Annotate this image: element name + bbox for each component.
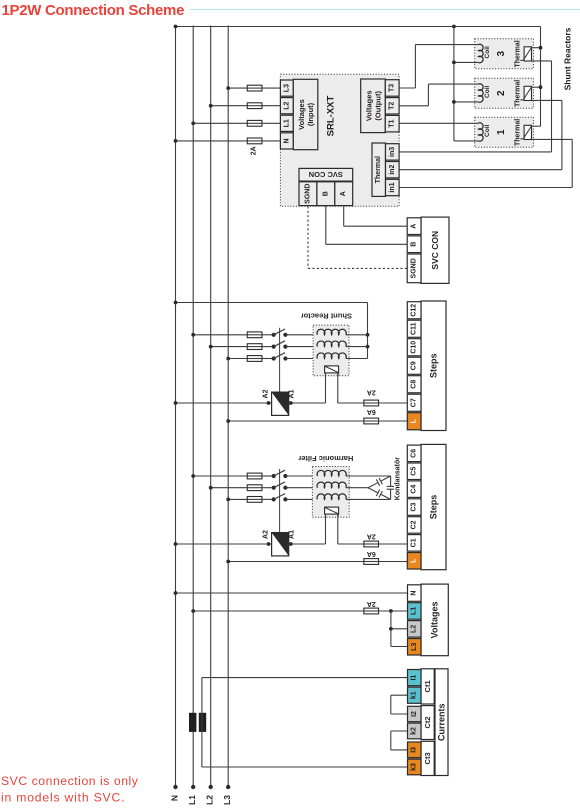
svg-text:T3: T3 bbox=[389, 84, 396, 92]
contactor contact (L1) bbox=[272, 333, 276, 337]
svg-text:C1: C1 bbox=[411, 538, 418, 547]
current transformer CT1 primary bar bbox=[189, 713, 196, 732]
label box: Steps (bank2) bbox=[421, 444, 446, 569]
svg-text:Voltages: Voltages bbox=[430, 601, 440, 638]
wire: thermistor 2 to in2 bbox=[532, 99, 562, 101]
wire: coil2 to capacitor apex (bank2) bbox=[346, 487, 368, 489]
terminal L2 (Voltages Input) bbox=[280, 98, 293, 114]
wire: coil3 to capacitor bottom (bank2) bbox=[346, 498, 391, 500]
label box: Voltages (Output) bbox=[361, 79, 386, 133]
wire: fuse to contact bbox=[262, 334, 274, 336]
svg-text:I2: I2 bbox=[411, 711, 418, 717]
wire: B to SVC CON bbox=[325, 206, 327, 244]
svg-text:C8: C8 bbox=[411, 380, 418, 389]
fuse F-L3 input bbox=[247, 85, 262, 91]
wire: 6A fuse to L terminal (bank1) bbox=[379, 420, 408, 422]
coil L1 (reactor 1) bbox=[479, 123, 484, 141]
svg-text:SGND: SGND bbox=[304, 184, 311, 204]
svg-text:C3: C3 bbox=[411, 502, 418, 511]
terminal A (SVC CON) bbox=[407, 218, 421, 235]
terminal L2 (Voltages) bbox=[408, 621, 422, 638]
svg-text:Voltages: Voltages bbox=[364, 90, 373, 121]
terminal I2 (Currents) bbox=[408, 706, 422, 721]
wire: fuse to terminal L2 bbox=[262, 105, 281, 107]
svg-text:C11: C11 bbox=[411, 322, 418, 335]
fuse F-N input bbox=[247, 138, 262, 144]
wire: L2 bus to step fuse bbox=[211, 346, 248, 348]
wire: contact to reactor coil (L1) bbox=[285, 334, 317, 336]
svg-text:A1: A1 bbox=[288, 530, 295, 539]
wire: thermistor 1 to common bbox=[532, 125, 541, 127]
wire: fuse to terminal N bbox=[262, 140, 281, 142]
svg-text:6A: 6A bbox=[367, 550, 376, 557]
svg-text:I1: I1 bbox=[411, 675, 418, 681]
filter coil 2 (bank2) bbox=[317, 482, 346, 488]
contactor contact (L1) bbox=[272, 474, 276, 478]
svg-text:A2: A2 bbox=[262, 389, 269, 398]
terminal in2 (Thermal input) bbox=[386, 162, 400, 178]
wire: 2A fuse to L1 terminal bbox=[379, 610, 408, 612]
wire: contact to reactor coil (L2) bbox=[285, 487, 317, 489]
wire: fuse to terminal L3 bbox=[262, 87, 281, 89]
terminal C8 (Steps bank1) bbox=[407, 376, 421, 393]
wire: fuse to contact bbox=[262, 358, 274, 360]
wire: contact to reactor coil (L3) bbox=[285, 358, 317, 360]
label box: Ct3 bbox=[421, 741, 434, 775]
wire: fuse to contact bbox=[262, 487, 274, 489]
wire: T2 to reactor 2 coil bbox=[399, 105, 428, 107]
terminal L3 (Voltages Input) bbox=[280, 80, 293, 96]
contactor contact (L3) bbox=[272, 497, 276, 501]
contactor K2 linkage bbox=[279, 469, 281, 533]
node: L3 bus end bbox=[226, 785, 230, 789]
svg-text:L3: L3 bbox=[222, 795, 232, 805]
svg-text:Coil: Coil bbox=[484, 124, 491, 136]
svg-text:2A: 2A bbox=[367, 389, 376, 396]
wire: A1 to thermal (K2) bbox=[289, 543, 326, 545]
terminal in1 (Thermal input) bbox=[386, 179, 400, 195]
terminal L1 (Voltages Input) bbox=[280, 115, 293, 131]
terminal C3 (Steps bank2) bbox=[407, 499, 421, 516]
svg-text:N: N bbox=[283, 138, 290, 143]
fuse 6A (bank2) bbox=[364, 559, 379, 565]
svg-text:Steps: Steps bbox=[429, 353, 439, 378]
wire: N bus bbox=[175, 26, 177, 788]
wire: CT to I1 bbox=[202, 677, 408, 679]
label box: Ct2 bbox=[421, 706, 434, 740]
svg-text:Currents: Currents bbox=[437, 703, 447, 741]
wire: N bus to input fuse bbox=[176, 140, 248, 142]
node: L2 bus end bbox=[209, 785, 213, 789]
wire: A to SVC CON bbox=[343, 206, 345, 226]
wire: fuse to contact bbox=[262, 498, 274, 500]
device: SVC CON converter box bbox=[421, 217, 449, 283]
fuse (step, L1) bbox=[247, 473, 262, 479]
wire: star point drop (bank1) bbox=[367, 303, 369, 359]
fuse 2A (bank1) bbox=[364, 400, 379, 406]
svg-text:in2: in2 bbox=[389, 165, 396, 175]
svg-text:k2: k2 bbox=[411, 727, 418, 735]
reactor coil 3 (bank1) bbox=[317, 353, 346, 359]
svg-text:A: A bbox=[340, 191, 347, 196]
fuse (step, L3) bbox=[247, 356, 262, 362]
terminal T3 (Voltages Output) bbox=[385, 80, 399, 97]
svg-text:N: N bbox=[411, 591, 418, 596]
svg-text:C6: C6 bbox=[411, 449, 418, 458]
terminal C11 (Steps bank1) bbox=[407, 320, 421, 337]
svg-text:in3: in3 bbox=[389, 147, 396, 157]
wire: N common drop to coils bbox=[453, 27, 455, 141]
wire: L1 bus to step fuse bbox=[193, 334, 247, 336]
wire: L1 bus to 2A fuse (voltages) bbox=[193, 610, 364, 612]
wire: T1 to reactor 1 coil bbox=[399, 122, 478, 124]
wire: coil 3 to star (bank1) bbox=[346, 358, 368, 360]
node: L1 bus end bbox=[191, 785, 195, 789]
svg-text:Steps: Steps bbox=[429, 495, 439, 520]
wire: L3 bus to step fuse bbox=[228, 498, 247, 500]
wire: fuse to terminal L1 bbox=[262, 122, 281, 124]
wire: N bus to reactors common (top) bbox=[176, 26, 541, 28]
wire: thermistor 3 to in3 bbox=[532, 60, 552, 62]
label box: Voltages bbox=[421, 584, 448, 656]
wire: thermal left to A1 line (bank2) bbox=[325, 514, 327, 544]
svg-text:C2: C2 bbox=[411, 520, 418, 529]
wire: L3 bus to step fuse bbox=[228, 358, 247, 360]
wire: thermistor 1 to in1 bbox=[532, 138, 573, 140]
svg-text:L2: L2 bbox=[283, 102, 290, 110]
svg-text:SGND: SGND bbox=[411, 258, 418, 278]
wire: k1 to I2 jumper bbox=[391, 694, 408, 696]
wire: L1 bus bbox=[192, 26, 194, 788]
terminal T1 (Voltages Output) bbox=[385, 115, 399, 131]
svg-text:3: 3 bbox=[496, 50, 507, 56]
wire: L1 bus to input fuse bbox=[193, 122, 247, 124]
terminal L (Steps bank2) bbox=[407, 553, 421, 570]
contactor coil K1 bbox=[272, 392, 289, 415]
wire: 6A fuse to L terminal (bank2) bbox=[379, 561, 408, 563]
svg-text:SVC CON: SVC CON bbox=[430, 231, 440, 270]
reactor coil 1 (bank1) bbox=[317, 329, 346, 335]
thermistor RT3 bbox=[524, 47, 531, 61]
svg-text:2A: 2A bbox=[367, 600, 376, 607]
wire: thermistor 2 to common bbox=[532, 86, 541, 88]
terminal B (SRL SVC CON) bbox=[317, 182, 335, 206]
wire: L3 bus bbox=[227, 26, 229, 788]
svg-text:2: 2 bbox=[496, 90, 507, 96]
terminal in3 (Thermal input) bbox=[386, 144, 400, 160]
svg-text:Thermal: Thermal bbox=[514, 119, 521, 146]
wire: k3 return to CT bbox=[202, 766, 408, 768]
svg-text:Ct3: Ct3 bbox=[423, 752, 432, 764]
wire: L2 bus bbox=[210, 26, 212, 788]
wire: contact to reactor coil (L1) bbox=[285, 475, 317, 477]
wire: L3 bus to 6A fuse (bank2) bbox=[228, 561, 364, 563]
fuse (step, L1) bbox=[247, 332, 262, 338]
wire: L1-L2-L3 jumper bbox=[390, 611, 392, 647]
svg-text:1P2W Connection Scheme: 1P2W Connection Scheme bbox=[2, 2, 185, 19]
svg-text:A2: A2 bbox=[262, 530, 269, 539]
svg-text:Ct2: Ct2 bbox=[423, 716, 432, 728]
thermal sensor (bank1) bbox=[325, 366, 339, 373]
capacitor C-c (L1 to L3) bbox=[390, 476, 392, 486]
svg-text:C12: C12 bbox=[411, 304, 418, 317]
wire: N common to coil 3 bbox=[454, 61, 479, 63]
terminal T2 (Voltages Output) bbox=[385, 98, 399, 114]
svg-text:C9: C9 bbox=[411, 361, 418, 370]
wire: thermal right to 2A fuse (bank2) bbox=[337, 514, 339, 544]
filter coil 3 (bank2) bbox=[317, 494, 346, 500]
current transformer CT1 secondary bar bbox=[199, 713, 206, 732]
svg-text:k3: k3 bbox=[411, 763, 418, 771]
svg-text:Voltages: Voltages bbox=[297, 99, 306, 130]
terminal L3 (Voltages) bbox=[408, 639, 422, 656]
svg-text:T1: T1 bbox=[389, 119, 396, 127]
terminal C10 (Steps bank1) bbox=[407, 339, 421, 356]
svg-text:(Input): (Input) bbox=[306, 102, 315, 126]
svg-text:Shunt Reactors: Shunt Reactors bbox=[563, 27, 573, 90]
wire: 2A fuse to C7 bbox=[379, 402, 408, 404]
decorative teal rule bbox=[190, 9, 580, 11]
contactor contact (L2) bbox=[272, 486, 276, 490]
fuse F-L2 input bbox=[247, 103, 262, 109]
wire: thermal right to 2A fuse (bank1) bbox=[337, 373, 339, 403]
terminal C2 (Steps bank2) bbox=[407, 517, 421, 534]
unit SRL-XXT enclosure bbox=[280, 74, 399, 206]
terminal k2 (Currents) bbox=[408, 723, 422, 739]
terminal C12 (Steps bank1) bbox=[407, 302, 421, 319]
capacitor C-b (L2 to L3) bbox=[368, 488, 378, 493]
svg-text:(Output): (Output) bbox=[373, 91, 382, 121]
fuse 2A (bank2) bbox=[364, 541, 379, 547]
svg-text:Ct1: Ct1 bbox=[423, 680, 432, 692]
wire: coil 1 to star (bank1) bbox=[346, 334, 368, 336]
svg-text:1: 1 bbox=[496, 129, 507, 135]
terminal C5 (Steps bank2) bbox=[407, 463, 421, 480]
terminal C6 (Steps bank2) bbox=[407, 445, 421, 462]
wire: 2A fuse to C1 bbox=[379, 543, 408, 545]
wire: coil1 to capacitor top (bank2) bbox=[346, 475, 391, 477]
svg-text:SVC CON: SVC CON bbox=[309, 170, 343, 179]
wire: N bus to reactor star point (bank1) bbox=[176, 302, 368, 304]
capacitor C-a (L2 to L1) bbox=[368, 483, 378, 488]
terminal C7 (Steps bank1) bbox=[407, 394, 421, 411]
terminal A (SRL SVC CON) bbox=[335, 182, 353, 206]
svg-text:Thermal: Thermal bbox=[375, 156, 382, 183]
terminal k1 (Currents) bbox=[408, 687, 422, 703]
terminal L1 (Voltages) bbox=[408, 603, 422, 620]
wire: L3 bus to 6A fuse (bank1) bbox=[228, 420, 364, 422]
coil L2 (reactor 2) bbox=[479, 84, 484, 102]
wire: CT secondary loop bbox=[201, 678, 203, 767]
label box: Ct1 bbox=[421, 669, 434, 704]
svg-text:6A: 6A bbox=[367, 408, 376, 415]
terminal N (Voltages) bbox=[408, 585, 422, 602]
svg-text:L1: L1 bbox=[283, 119, 290, 127]
fuse F-L1 input bbox=[247, 120, 262, 126]
terminal C9 (Steps bank1) bbox=[407, 357, 421, 374]
coil L3 (reactor 3) bbox=[479, 44, 484, 62]
wire: L1 bus to step fuse bbox=[193, 475, 247, 477]
svg-text:2A: 2A bbox=[367, 533, 376, 540]
label box: Voltages (Input) bbox=[293, 79, 318, 149]
svg-text:k1: k1 bbox=[411, 691, 418, 699]
svg-text:L1: L1 bbox=[411, 607, 418, 615]
shunt reactor module box (bank1) bbox=[313, 325, 349, 376]
fuse 2A (voltages) bbox=[364, 608, 379, 614]
terminal SGND (SVC CON) bbox=[407, 254, 421, 283]
svg-text:L2: L2 bbox=[411, 625, 418, 633]
contactor contact (L3) bbox=[272, 356, 276, 360]
filter coil 1 (bank2) bbox=[317, 470, 346, 476]
terminal I3 (Currents) bbox=[408, 742, 422, 758]
svg-text:Thermal: Thermal bbox=[514, 40, 521, 67]
fuse (step, L2) bbox=[247, 485, 262, 491]
terminal C1 (Steps bank2) bbox=[407, 535, 421, 552]
svg-text:A: A bbox=[411, 224, 418, 229]
svg-text:L2: L2 bbox=[205, 795, 215, 805]
svg-text:B: B bbox=[322, 191, 329, 196]
svg-text:B: B bbox=[411, 242, 418, 247]
reactor coil 2 (bank1) bbox=[317, 341, 346, 347]
svg-text:C10: C10 bbox=[411, 341, 418, 354]
wire: fuse to contact bbox=[262, 346, 274, 348]
svg-text:Shunt Reactor: Shunt Reactor bbox=[301, 312, 352, 321]
svg-text:A1: A1 bbox=[288, 389, 295, 398]
fuse (step, L2) bbox=[247, 344, 262, 350]
wire: N common to coil 2 bbox=[454, 101, 479, 103]
terminal L (Steps bank1) bbox=[407, 413, 421, 430]
wire: N bus to A2 (K2) bbox=[176, 543, 272, 545]
thermistor RT2 bbox=[524, 86, 531, 100]
wire: contact to reactor coil (L2) bbox=[285, 346, 317, 348]
terminal k3 (Currents) bbox=[408, 759, 422, 775]
svg-text:C4: C4 bbox=[411, 485, 418, 494]
svg-text:L: L bbox=[411, 418, 418, 423]
shunt reactor 1 box bbox=[475, 117, 534, 147]
svg-text:in models with SVC.: in models with SVC. bbox=[1, 791, 125, 805]
node: N bus end bbox=[173, 785, 177, 789]
wire: SGND to SVC CON (shield, dashed) bbox=[307, 206, 309, 268]
terminal C4 (Steps bank2) bbox=[407, 481, 421, 498]
wire: N bus to A2 (K1) bbox=[176, 402, 272, 404]
wire: A1 to thermal (K1) bbox=[289, 402, 326, 404]
svg-text:SVC connection is only: SVC connection is only bbox=[1, 774, 139, 788]
fuse (step, L3) bbox=[247, 497, 262, 503]
shunt reactor 3 box bbox=[475, 39, 534, 69]
wire: coil 2 to star (bank1) bbox=[346, 346, 368, 348]
wire: L3 bus to input fuse bbox=[228, 87, 247, 89]
svg-text:Kondansatör: Kondansatör bbox=[394, 457, 401, 500]
terminal N (Voltages Input) bbox=[280, 133, 293, 149]
label box: Currents bbox=[435, 669, 448, 776]
svg-text:T2: T2 bbox=[389, 102, 396, 110]
svg-text:L3: L3 bbox=[411, 643, 418, 651]
svg-text:I3: I3 bbox=[411, 747, 418, 753]
svg-text:N: N bbox=[169, 795, 179, 801]
wire: L2 bus to step fuse bbox=[211, 487, 248, 489]
contactor K1 linkage bbox=[279, 328, 281, 392]
wire: T3 to reactor 3 coil bbox=[399, 87, 415, 89]
svg-text:C5: C5 bbox=[411, 467, 418, 476]
svg-text:Coil: Coil bbox=[484, 85, 491, 97]
svg-text:L1: L1 bbox=[187, 795, 197, 805]
thermal sensor (bank2) bbox=[325, 507, 339, 514]
shunt reactor 2 box bbox=[475, 78, 534, 108]
wire: fuse to contact bbox=[262, 475, 274, 477]
svg-text:C7: C7 bbox=[411, 398, 418, 407]
wire: N bus to voltages N bbox=[176, 592, 408, 594]
fuse 6A (bank1) bbox=[364, 418, 379, 424]
wire: thermal left to A1 line (bank1) bbox=[325, 373, 327, 403]
thermistor RT1 bbox=[524, 125, 531, 139]
svg-text:Harmonic Filter: Harmonic Filter bbox=[298, 454, 353, 463]
wire: contact to reactor coil (L3) bbox=[285, 498, 317, 500]
wire: L2 bus to input fuse bbox=[211, 105, 248, 107]
svg-text:L: L bbox=[411, 558, 418, 563]
svg-text:SRL-XXT: SRL-XXT bbox=[326, 95, 337, 136]
svg-text:Thermal: Thermal bbox=[514, 80, 521, 107]
terminal SGND (SRL SVC CON) bbox=[299, 182, 317, 206]
terminal B (SVC CON) bbox=[407, 236, 421, 253]
label box: SVC CON (on SRL unit) bbox=[299, 168, 353, 181]
harmonic filter module box (bank2) bbox=[312, 467, 349, 518]
svg-text:in1: in1 bbox=[389, 182, 396, 192]
terminal I1 (Currents) bbox=[408, 670, 422, 686]
svg-text:Coil: Coil bbox=[484, 46, 491, 58]
wire: N common to coil 1 bbox=[454, 140, 479, 142]
svg-text:2A: 2A bbox=[250, 146, 257, 155]
svg-text:L3: L3 bbox=[283, 84, 290, 92]
wire: thermistor 3 to common bbox=[532, 47, 541, 49]
wire: thermistor common drop bbox=[540, 27, 542, 127]
wire: k2 to I3 jumper bbox=[391, 730, 408, 732]
label box: Thermal (inputs) bbox=[372, 143, 386, 196]
contactor contact (L2) bbox=[272, 345, 276, 349]
contactor coil K2 bbox=[272, 533, 289, 556]
label box: Steps (bank1) bbox=[421, 301, 446, 431]
